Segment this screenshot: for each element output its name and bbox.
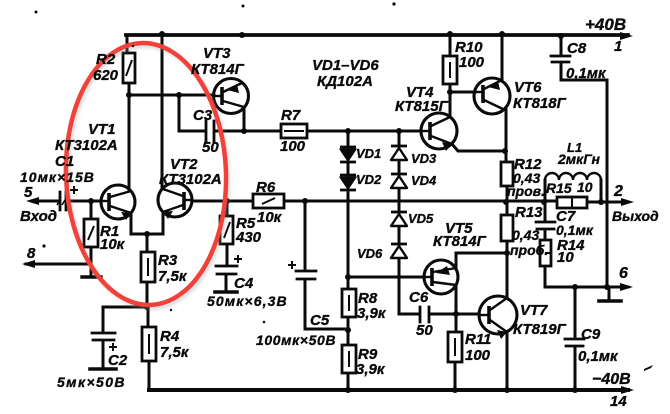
svg-text:2мкГн: 2мкГн bbox=[557, 151, 600, 167]
svg-text:VD3: VD3 bbox=[411, 151, 437, 166]
svg-text:10: 10 bbox=[577, 179, 593, 195]
svg-text:10к: 10к bbox=[100, 236, 126, 253]
svg-text:КТ814Г: КТ814Г bbox=[191, 61, 245, 78]
svg-text:VD5: VD5 bbox=[408, 211, 434, 226]
svg-text:КТ815Г: КТ815Г bbox=[395, 98, 449, 115]
svg-text:пров.: пров. bbox=[507, 183, 545, 199]
svg-text:7,5к: 7,5к bbox=[160, 344, 190, 361]
svg-text:R13: R13 bbox=[515, 204, 543, 221]
svg-text:50: 50 bbox=[202, 139, 219, 156]
svg-text:100: 100 bbox=[459, 54, 485, 71]
svg-text:100: 100 bbox=[465, 347, 491, 364]
svg-text:50: 50 bbox=[416, 322, 433, 339]
svg-text:8: 8 bbox=[27, 245, 36, 262]
svg-text:620: 620 bbox=[93, 67, 119, 84]
svg-text:R15: R15 bbox=[546, 180, 572, 196]
svg-text:R4: R4 bbox=[160, 328, 180, 345]
svg-text:C8: C8 bbox=[567, 40, 587, 57]
svg-text:VD2: VD2 bbox=[356, 172, 382, 187]
svg-text:3,9к: 3,9к bbox=[356, 361, 386, 378]
svg-text:0,43: 0,43 bbox=[512, 227, 539, 243]
svg-text:0,1мк: 0,1мк bbox=[566, 65, 607, 82]
svg-text:0,1мк: 0,1мк bbox=[578, 348, 619, 365]
svg-text:C1: C1 bbox=[55, 153, 74, 170]
svg-text:100: 100 bbox=[280, 138, 306, 155]
svg-text:14: 14 bbox=[610, 393, 627, 410]
svg-text:6: 6 bbox=[619, 265, 628, 282]
svg-text:КТ3102А: КТ3102А bbox=[55, 137, 118, 154]
svg-text:10: 10 bbox=[557, 249, 574, 266]
svg-text:VD1–VD6: VD1–VD6 bbox=[312, 57, 379, 74]
svg-text:+40В: +40В bbox=[585, 15, 626, 34]
svg-text:3,9к: 3,9к bbox=[357, 305, 387, 322]
svg-text:R3: R3 bbox=[158, 252, 178, 269]
svg-text:430: 430 bbox=[235, 229, 262, 246]
svg-text:5мк×50В: 5мк×50В bbox=[57, 374, 126, 390]
svg-text:R11: R11 bbox=[465, 331, 491, 348]
svg-text:0,1мк: 0,1мк bbox=[556, 222, 594, 238]
svg-text:50мк×6,3В: 50мк×6,3В bbox=[207, 293, 288, 309]
svg-text:VT7: VT7 bbox=[520, 302, 548, 319]
svg-text:R6: R6 bbox=[256, 179, 276, 196]
svg-text:VT6: VT6 bbox=[514, 79, 542, 96]
svg-text:КТ819Г: КТ819Г bbox=[513, 321, 567, 338]
svg-text:КТ818Г: КТ818Г bbox=[513, 95, 567, 112]
svg-text:7,5к: 7,5к bbox=[158, 268, 188, 285]
svg-text:VD4: VD4 bbox=[411, 173, 437, 188]
svg-text:VD6: VD6 bbox=[357, 246, 383, 261]
svg-text:−40В: −40В bbox=[592, 371, 631, 388]
svg-text:КД102А: КД102А bbox=[317, 73, 373, 90]
svg-text:Вход: Вход bbox=[20, 208, 57, 225]
svg-text:100мк×50В: 100мк×50В bbox=[256, 332, 336, 348]
svg-text:VT3: VT3 bbox=[203, 45, 231, 62]
svg-text:C4: C4 bbox=[234, 275, 254, 292]
svg-text:R2: R2 bbox=[96, 51, 116, 68]
svg-text:R7: R7 bbox=[281, 107, 301, 124]
svg-text:C6: C6 bbox=[409, 289, 429, 306]
svg-text:КТ3102А: КТ3102А bbox=[159, 171, 222, 188]
svg-text:10мк×15В: 10мк×15В bbox=[20, 169, 95, 185]
svg-text:Выход: Выход bbox=[612, 208, 659, 224]
svg-text:VD1: VD1 bbox=[356, 146, 381, 161]
svg-text:C3: C3 bbox=[193, 107, 213, 124]
svg-text:проб.: проб. bbox=[510, 242, 548, 258]
svg-text:C2: C2 bbox=[108, 352, 128, 369]
svg-text:C9: C9 bbox=[581, 326, 601, 343]
svg-text:C5: C5 bbox=[310, 312, 330, 329]
svg-text:КТ814Г: КТ814Г bbox=[433, 233, 487, 250]
svg-text:10к: 10к bbox=[257, 209, 283, 226]
svg-text:VT1: VT1 bbox=[88, 121, 116, 138]
svg-text:2: 2 bbox=[613, 183, 623, 200]
svg-text:1: 1 bbox=[614, 38, 622, 55]
svg-text:5: 5 bbox=[24, 184, 33, 201]
